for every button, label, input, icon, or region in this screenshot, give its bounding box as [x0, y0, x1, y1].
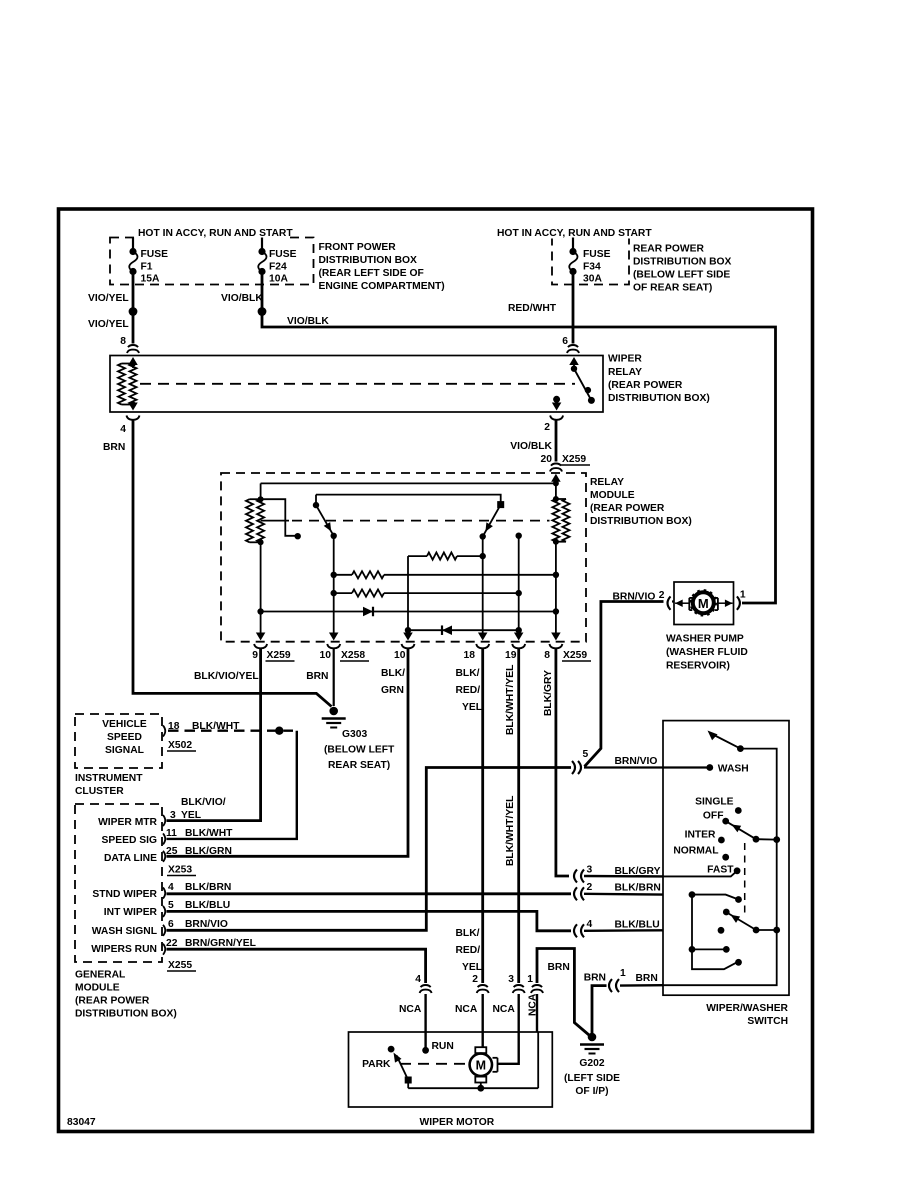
svg-text:X259: X259 — [267, 650, 291, 661]
svg-text:BLK/: BLK/ — [381, 668, 405, 679]
svg-text:RELAY: RELAY — [608, 367, 642, 378]
svg-text:DISTRIBUTION BOX): DISTRIBUTION BOX) — [75, 1009, 177, 1020]
resistor R2 — [334, 592, 352, 594]
connector relay module pin 10 — [402, 644, 415, 648]
wire BLK/GRN relay pin 10 to general module pin 25 — [167, 648, 409, 856]
general module box — [75, 804, 162, 962]
svg-text:WASHER PUMP: WASHER PUMP — [666, 634, 744, 645]
svg-text:BLK/BLU: BLK/BLU — [185, 900, 230, 911]
connector relay module pin 19 — [512, 644, 525, 648]
svg-text:YEL: YEL — [462, 702, 482, 713]
diode D2 — [442, 625, 452, 635]
svg-text:19: 19 — [505, 650, 517, 661]
relay module top bus wire — [261, 482, 556, 484]
relay module switch S1 — [315, 495, 317, 506]
connector wiper relay pin 4 — [127, 416, 140, 420]
washer pump motor M1 — [693, 592, 714, 613]
svg-text:BLK/WHT/YEL: BLK/WHT/YEL — [505, 796, 516, 866]
svg-text:BLK/: BLK/ — [456, 928, 480, 939]
relay module coil K1 — [260, 483, 262, 499]
svg-text:BRN: BRN — [548, 962, 570, 973]
svg-text:BLK/BLU: BLK/BLU — [615, 920, 660, 931]
svg-text:SPEED: SPEED — [107, 732, 142, 743]
svg-text:G303: G303 — [342, 729, 367, 740]
svg-text:(REAR POWER: (REAR POWER — [75, 996, 150, 1007]
wiper relay switch — [569, 357, 579, 365]
svg-text:VEHICLE: VEHICLE — [102, 719, 147, 730]
svg-text:FUSE: FUSE — [583, 249, 611, 260]
wiper motor box — [349, 1032, 553, 1107]
connector washer pump pin 2 — [668, 596, 671, 609]
svg-text:SINGLE: SINGLE — [695, 797, 733, 808]
connector X259 pin 20 — [551, 464, 561, 466]
relay module switch S2 — [497, 501, 504, 508]
svg-text:(REAR POWER: (REAR POWER — [608, 380, 683, 391]
relay module pin 8 wire — [555, 542, 557, 630]
relay module pin 19 wire — [516, 533, 522, 539]
svg-text:FUSE: FUSE — [269, 249, 297, 260]
svg-text:WASH: WASH — [718, 764, 749, 775]
switch contact BLK/BLU — [718, 927, 725, 934]
svg-text:(REAR POWER: (REAR POWER — [590, 503, 665, 514]
front power distribution box — [110, 238, 314, 285]
svg-text:BLK/VIO/: BLK/VIO/ — [181, 797, 226, 808]
svg-text:WIPER MOTOR: WIPER MOTOR — [420, 1117, 495, 1128]
wiper motor park link dashed — [400, 1063, 466, 1065]
relay module pin 18 wire — [482, 537, 484, 631]
wire VIO/BLK fuse F24 to washer pump feed — [262, 272, 776, 604]
wire BLK/BRN general module pin 4 to connector 2 — [167, 892, 572, 895]
svg-text:BLK/BRN: BLK/BRN — [615, 883, 661, 894]
wire BRN wiper motor pin 1 to ground G202 — [537, 949, 589, 1036]
connector wiper relay pin 6 — [568, 345, 578, 347]
relay module dashed link line — [261, 520, 289, 522]
connector wiper motor pin 4 — [421, 985, 431, 987]
svg-text:FRONT POWER: FRONT POWER — [319, 242, 397, 253]
svg-text:9: 9 — [252, 650, 258, 661]
svg-text:20: 20 — [541, 454, 553, 465]
rotary switch wiper arm — [728, 822, 757, 839]
wire BRN connector 1 to switch box — [620, 984, 663, 987]
svg-text:X259: X259 — [563, 650, 587, 661]
svg-text:BLK/: BLK/ — [456, 668, 480, 679]
speed switch linkage wires — [692, 895, 736, 970]
svg-text:X502: X502 — [168, 740, 192, 751]
svg-text:X253: X253 — [168, 865, 192, 876]
svg-text:BLK/WHT: BLK/WHT — [192, 721, 240, 732]
svg-text:STND WIPER: STND WIPER — [92, 889, 157, 900]
connector relay module pin 9 X259 — [254, 644, 267, 648]
wire VIO/BLK wiper relay pin 2 to X259 pin 20 — [555, 420, 558, 462]
wire BRN/VIO general module pin 6 to connector 5 — [167, 768, 572, 931]
svg-text:2: 2 — [659, 590, 665, 601]
svg-text:BLK/BRN: BLK/BRN — [185, 882, 231, 893]
svg-text:1: 1 — [527, 974, 533, 985]
svg-text:M: M — [698, 596, 709, 611]
wiper relay coil — [128, 357, 138, 365]
wire BRN/GRN/YEL general module pin 22 to wiper motor pin 4 — [167, 949, 426, 983]
svg-text:3: 3 — [170, 810, 176, 821]
svg-text:OF REAR SEAT): OF REAR SEAT) — [633, 283, 712, 294]
svg-text:3: 3 — [508, 974, 514, 985]
fuse F24 10A — [261, 238, 263, 250]
svg-text:BLK/GRY: BLK/GRY — [543, 670, 554, 716]
svg-text:OFF: OFF — [703, 811, 724, 822]
svg-text:GRN: GRN — [381, 685, 404, 696]
svg-text:BRN/GRN/YEL: BRN/GRN/YEL — [185, 938, 256, 949]
svg-text:INTER: INTER — [685, 830, 716, 841]
svg-text:DISTRIBUTION BOX): DISTRIBUTION BOX) — [590, 516, 692, 527]
svg-text:4: 4 — [587, 919, 593, 930]
svg-text:NCA: NCA — [455, 1004, 478, 1015]
svg-text:VIO/BLK: VIO/BLK — [510, 441, 552, 452]
svg-text:FAST: FAST — [707, 865, 734, 876]
diode D2 wire — [408, 629, 519, 631]
ground G202 — [588, 1033, 597, 1042]
bus label HOT IN ACCY RUN AND START (rear) — [495, 226, 647, 239]
svg-text:YEL: YEL — [181, 810, 201, 821]
wire BRN switch pin 1 to ground G202 — [592, 986, 607, 1035]
svg-text:RELAY: RELAY — [590, 477, 624, 488]
svg-text:BLK/WHT/YEL: BLK/WHT/YEL — [505, 665, 516, 735]
svg-text:DISTRIBUTION BOX: DISTRIBUTION BOX — [633, 257, 732, 268]
wiper motor M2 — [470, 1054, 492, 1076]
general module pin 22 — [163, 944, 165, 955]
svg-text:WASH SIGNL: WASH SIGNL — [92, 926, 157, 937]
svg-text:SWITCH: SWITCH — [747, 1016, 788, 1027]
wire FAST contact to BLK/GRY — [663, 871, 737, 877]
svg-text:RUN: RUN — [432, 1041, 454, 1052]
svg-text:CLUSTER: CLUSTER — [75, 786, 124, 797]
connector wiper motor pin 1 — [532, 985, 542, 987]
bus label HOT IN ACCY RUN AND START (front) — [136, 226, 288, 239]
wire BLK/WHT/YEL relay pin 19 to wiper motor pin 3 — [517, 648, 520, 983]
svg-text:VIO/YEL: VIO/YEL — [88, 319, 129, 330]
speed switch wiper arm — [723, 909, 730, 916]
svg-text:BLK/GRN: BLK/GRN — [185, 846, 232, 857]
svg-text:DISTRIBUTION BOX: DISTRIBUTION BOX — [319, 255, 418, 266]
svg-text:F34: F34 — [583, 262, 601, 273]
svg-text:SPEED SIG: SPEED SIG — [101, 835, 157, 846]
svg-text:WIPER/WASHER: WIPER/WASHER — [706, 1003, 788, 1014]
svg-text:BRN: BRN — [584, 973, 606, 984]
diode D1 wire — [261, 611, 556, 613]
washer pump box — [674, 582, 734, 625]
fuse F34 30A — [572, 238, 574, 250]
relay module pin 10 wire — [407, 556, 409, 630]
svg-text:HOT IN ACCY, RUN AND START: HOT IN ACCY, RUN AND START — [138, 228, 293, 239]
svg-text:WIPER: WIPER — [608, 354, 642, 365]
svg-text:VIO/BLK: VIO/BLK — [287, 316, 329, 327]
svg-text:(WASHER FLUID: (WASHER FLUID — [666, 647, 748, 658]
wire wiper motor pin 2 lead — [482, 994, 484, 1047]
wire RED/WHT fuse F34 to wiper relay pin 6 — [572, 272, 575, 344]
wiper motor park switch — [388, 1046, 395, 1053]
svg-text:VIO/BLK: VIO/BLK — [221, 293, 263, 304]
general module pin 4 — [163, 888, 165, 899]
resistor R3 — [408, 555, 427, 557]
wire BRN relay pin 10 X258 to ground G303 — [333, 648, 335, 706]
svg-text:G202: G202 — [579, 1058, 604, 1069]
wash switch — [708, 731, 718, 741]
svg-text:3: 3 — [587, 865, 593, 876]
svg-text:RED/: RED/ — [456, 945, 481, 956]
svg-text:OF I/P): OF I/P) — [575, 1086, 608, 1097]
svg-text:NCA: NCA — [493, 1004, 516, 1015]
switch common wire (BRN feed) — [663, 749, 777, 986]
connector relay module pin 10 X258 — [327, 644, 340, 648]
svg-text:10: 10 — [320, 650, 332, 661]
wire BLK/GRY relay pin 8 to connector 3 — [556, 648, 569, 876]
svg-text:REAR POWER: REAR POWER — [633, 244, 705, 255]
relay module pin 20 arrow — [551, 474, 561, 482]
wire BRN/VIO connector 5 to wiper washer switch WASH — [584, 766, 710, 768]
connector wiper motor pin 2 — [478, 985, 488, 987]
connector 5 BRN/VIO — [572, 761, 575, 774]
svg-text:25: 25 — [166, 846, 178, 857]
connector wiper relay pin 8 — [128, 345, 138, 347]
svg-text:INSTRUMENT: INSTRUMENT — [75, 773, 143, 784]
svg-text:NCA: NCA — [399, 1004, 422, 1015]
wire wiper motor pin 3 lead — [498, 994, 519, 1064]
svg-text:X259: X259 — [562, 454, 586, 465]
svg-text:VIO/YEL: VIO/YEL — [88, 293, 129, 304]
relay module pin 9 wire — [260, 542, 262, 630]
svg-text:4: 4 — [168, 882, 174, 893]
svg-text:22: 22 — [166, 938, 178, 949]
svg-text:(REAR LEFT SIDE OF: (REAR LEFT SIDE OF — [319, 268, 424, 279]
wire VIO/YEL fuse F1 to wiper relay pin 8 — [132, 272, 135, 344]
svg-text:BRN/VIO: BRN/VIO — [185, 919, 228, 930]
svg-text:6: 6 — [562, 336, 568, 347]
general module pin 3 — [163, 815, 165, 826]
wire BLK/BLU connector 4 to switch — [584, 929, 663, 932]
svg-text:M: M — [476, 1058, 486, 1072]
wire BLK/GRY connector 3 to switch — [584, 875, 663, 878]
general module pin 5 — [163, 906, 165, 917]
connector relay module pin 8 X259 — [549, 644, 562, 648]
svg-text:F24: F24 — [269, 262, 287, 273]
switch mechanical link dashed — [744, 843, 746, 918]
wire wiper motor pin 4 lead — [424, 994, 426, 1050]
svg-text:8: 8 — [544, 650, 550, 661]
svg-text:83047: 83047 — [67, 1117, 96, 1128]
relay module box — [221, 473, 586, 642]
svg-text:4: 4 — [415, 974, 421, 985]
svg-text:HOT IN ACCY, RUN AND START: HOT IN ACCY, RUN AND START — [497, 228, 652, 239]
svg-text:WIPERS RUN: WIPERS RUN — [91, 944, 157, 955]
wiper relay mechanical link dashed — [140, 383, 575, 385]
svg-text:6: 6 — [168, 919, 174, 930]
svg-text:INT WIPER: INT WIPER — [104, 907, 158, 918]
svg-text:8: 8 — [120, 336, 126, 347]
svg-text:BLK/WHT: BLK/WHT — [185, 828, 233, 839]
relay module coil K2 — [555, 484, 557, 500]
connector 1 BRN (switch ground) — [609, 979, 612, 992]
wiper washer switch box — [663, 721, 789, 996]
svg-text:REAR SEAT): REAR SEAT) — [328, 760, 390, 771]
svg-text:(BELOW LEFT: (BELOW LEFT — [324, 745, 395, 756]
svg-text:1: 1 — [620, 968, 626, 979]
connector 2 BLK/BRN — [574, 887, 577, 900]
svg-text:ENGINE COMPARTMENT): ENGINE COMPARTMENT) — [319, 281, 445, 292]
relay module pin 10 X258 wire — [333, 536, 335, 630]
fuse F1 15A — [132, 238, 134, 250]
svg-text:BRN: BRN — [306, 671, 328, 682]
wire washer pump pin 2 to connector 5 — [672, 600, 674, 602]
svg-text:(BELOW LEFT SIDE: (BELOW LEFT SIDE — [633, 270, 730, 281]
svg-text:11: 11 — [166, 828, 177, 839]
connector 4 BLK/BLU — [574, 924, 577, 937]
svg-text:DATA LINE: DATA LINE — [104, 853, 157, 864]
svg-text:WIPER MTR: WIPER MTR — [98, 817, 157, 828]
wire wiper motor pin 1 lead — [536, 994, 538, 1032]
svg-text:PARK: PARK — [362, 1059, 391, 1070]
svg-text:BRN: BRN — [636, 973, 658, 984]
svg-text:2: 2 — [544, 422, 550, 433]
wire BRN wiper relay pin 4 to ground G303 — [133, 420, 332, 707]
speed switch upper contact arm (BLK/BRN) — [689, 891, 696, 898]
diode D1 — [363, 607, 373, 617]
general module pin 11 — [163, 833, 165, 844]
wire BLK/WHT speed signal (X502 pin 18 to general module pin 11) — [168, 730, 293, 732]
connector wiper relay pin 2 — [550, 416, 563, 420]
ground G303 — [329, 707, 338, 716]
svg-text:5: 5 — [168, 900, 174, 911]
svg-text:RESERVOIR): RESERVOIR) — [666, 661, 730, 672]
general module pin 6 — [163, 925, 165, 936]
wire BLK/RED/YEL relay pin 18 to wiper motor pin 2 — [481, 648, 484, 983]
rotary switch position contacts — [735, 807, 742, 814]
svg-text:GENERAL: GENERAL — [75, 970, 125, 981]
instrument cluster box — [75, 714, 162, 768]
wire BLK/BRN connector 2 to switch — [584, 893, 663, 896]
svg-text:BLK/VIO/YEL: BLK/VIO/YEL — [194, 671, 259, 682]
wiper motor bottom rail — [480, 1083, 482, 1089]
connector relay module pin 18 — [476, 644, 489, 648]
svg-text:10A: 10A — [269, 274, 288, 285]
svg-text:BLK/GRY: BLK/GRY — [615, 866, 661, 877]
svg-text:MODULE: MODULE — [590, 490, 635, 501]
svg-text:SIGNAL: SIGNAL — [105, 745, 144, 756]
svg-text:BRN: BRN — [103, 442, 125, 453]
svg-text:2: 2 — [472, 974, 478, 985]
svg-text:RED/WHT: RED/WHT — [508, 303, 557, 314]
switch contact WASH — [706, 764, 713, 771]
svg-text:F1: F1 — [141, 262, 153, 273]
svg-text:BRN/VIO: BRN/VIO — [615, 756, 658, 767]
svg-text:4: 4 — [120, 424, 126, 435]
svg-text:RED/: RED/ — [456, 685, 481, 696]
wiper relay box — [110, 356, 603, 413]
svg-text:30A: 30A — [583, 274, 602, 285]
svg-text:MODULE: MODULE — [75, 983, 120, 994]
svg-text:5: 5 — [583, 749, 589, 760]
svg-text:X255: X255 — [168, 960, 192, 971]
svg-text:2: 2 — [587, 882, 593, 893]
svg-text:FUSE: FUSE — [141, 249, 169, 260]
connector X502 pin 18 — [163, 726, 165, 737]
svg-text:NORMAL: NORMAL — [673, 846, 718, 857]
connector 3 BLK/GRY — [574, 870, 577, 883]
svg-text:DISTRIBUTION BOX): DISTRIBUTION BOX) — [608, 393, 710, 404]
connector washer pump pin 1 — [737, 596, 740, 609]
relay module switch bus wire — [316, 495, 501, 502]
svg-text:YEL: YEL — [462, 962, 482, 973]
relay module K1 armature link — [261, 499, 295, 536]
resistor R1 — [334, 574, 352, 576]
svg-text:10: 10 — [394, 650, 406, 661]
rear power distribution box — [552, 238, 629, 285]
svg-text:X258: X258 — [341, 650, 365, 661]
switch contact RUN — [422, 1047, 429, 1054]
frame border — [59, 209, 813, 1132]
general module pin 25 — [163, 851, 165, 862]
svg-text:18: 18 — [464, 650, 476, 661]
svg-text:1: 1 — [740, 590, 746, 601]
connector wiper motor pin 3 — [514, 985, 524, 987]
svg-text:15A: 15A — [141, 274, 160, 285]
wire BLK/BLU general module pin 5 to connector 4 — [167, 911, 572, 930]
wire BLK/VIO/YEL relay pin 9 to general module pin 3 — [167, 648, 261, 820]
svg-text:(LEFT SIDE: (LEFT SIDE — [564, 1073, 620, 1084]
